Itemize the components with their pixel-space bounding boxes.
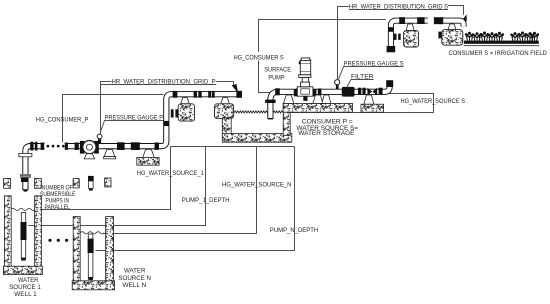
callout datum line under pipe end	[171, 146, 295, 148]
callout HR_WATER_DISTRIBUTION_GRID_P: left vertical down to gauge P	[101, 82, 112, 134]
svg-text:HG_CONSUMER_P: HG_CONSUMER_P	[36, 116, 89, 123]
pressure gauge P dial	[97, 134, 102, 139]
submersible pump 1 drop tube	[21, 213, 25, 259]
tank bottom slab	[222, 134, 291, 143]
svg-text:HG_WATER_SOURCE_N: HG_WATER_SOURCE_N	[222, 181, 292, 188]
svg-text:SOURCE 1: SOURCE 1	[9, 284, 41, 291]
submersible pump 1 intake tip	[21, 258, 25, 261]
coupling	[155, 143, 160, 150]
svg-text:PRESSURE GAUGE P: PRESSURE GAUGE P	[105, 114, 164, 121]
callout HR_WATER_DISTRIBUTION_GRID_P right connector to arrow	[216, 82, 233, 87]
coupling	[75, 143, 79, 150]
svg-text:PARALLEL: PARALLEL	[45, 204, 71, 211]
callout HR_WATER_DISTRIBUTION_GRID S underline	[349, 9, 448, 11]
grid S pipe bottom cap	[387, 46, 396, 52]
dip tube open end	[268, 118, 273, 119]
submersible pump 1 body	[21, 222, 27, 240]
dip tube flange	[265, 100, 275, 103]
filter body	[342, 87, 355, 97]
check valve bowtie	[367, 88, 372, 96]
submersible pump N body	[88, 239, 94, 253]
discharge elbow top band	[386, 80, 393, 87]
callout FILTER underline and leader	[347, 80, 374, 87]
svg-text:WATER: WATER	[18, 277, 39, 284]
callout HR_WATER_DISTRIBUTION_GRID_P underline	[101, 84, 217, 86]
well N riser stub cap	[88, 176, 94, 181]
pipe suction-discharge run with dip tube and up elbow	[270, 82, 389, 119]
coupling pair	[208, 91, 211, 98]
dots between wells	[48, 239, 68, 242]
svg-text:FILTER: FILTER	[351, 73, 374, 80]
svg-text:PUMP_1_DEPTH: PUMP_1_DEPTH	[182, 197, 230, 204]
tank left wall	[222, 118, 231, 136]
submersible pump N intake tip	[88, 277, 93, 280]
field plants	[465, 32, 474, 41]
grid P pump 2 body	[215, 104, 234, 119]
tank right wall	[283, 103, 290, 135]
coupling	[358, 88, 361, 95]
pipe stand	[104, 150, 115, 157]
submersible pump N drop tube	[88, 234, 93, 278]
tank water surface	[234, 111, 283, 113]
grid P pump 1 body	[178, 104, 194, 121]
grid P pipe end cap	[236, 91, 242, 98]
coupling	[362, 88, 365, 95]
well N riser stub pipe	[89, 181, 94, 189]
pipe main run with left riser and right riser up to grid P	[25, 94, 239, 189]
arrow to grid S pipe	[461, 14, 467, 21]
svg-text:PUMP_N_DEPTH: PUMP_N_DEPTH	[270, 227, 319, 234]
grid P pump 1 inlet flange bars	[171, 109, 174, 117]
right assembly left cap	[434, 17, 443, 24]
svg-text:HR_WATER_DISTRIBUTION_GRID_P: HR_WATER_DISTRIBUTION_GRID_P	[112, 78, 217, 85]
callout HG_CONSUMER S : from suction elbow left, up, right to grid S pipe	[259, 20, 386, 93]
pressure gauge S dial	[335, 80, 340, 85]
surface pump motor cylinder	[300, 60, 310, 75]
callout PRESSURE GAUGE S underline and leader	[339, 67, 404, 80]
surface pump foot	[303, 96, 307, 101]
surface pump right flange	[313, 89, 317, 96]
riser 1 tip	[22, 189, 29, 191]
valve P body	[83, 141, 96, 154]
svg-text:HG_WATER_SOURCE_1: HG_WATER_SOURCE_1	[137, 170, 204, 177]
coupling pair	[194, 91, 197, 98]
coupling	[173, 91, 178, 98]
stand on tank wall	[284, 95, 294, 103]
pipe stand	[313, 95, 323, 103]
well N left wall	[73, 217, 80, 282]
surface pump left flange	[294, 89, 298, 96]
coupling	[30, 142, 33, 151]
coupling	[35, 142, 38, 151]
right assembly pump body	[442, 30, 463, 46]
foundation slab under surface pump	[283, 103, 352, 112]
svg-text:HG_WATER_SOURCE S: HG_WATER_SOURCE S	[401, 98, 466, 105]
anchor block	[34, 178, 41, 188]
coupling	[399, 17, 405, 24]
anchor block	[4, 178, 11, 188]
callout PUMP_1_DEPTH	[28, 147, 205, 226]
riser 1 flange plate	[19, 153, 32, 156]
surface pump motor flange	[299, 75, 311, 78]
stand with base	[364, 95, 374, 104]
surface pump motor nub	[299, 61, 301, 64]
coupling	[417, 17, 424, 24]
anchor block	[73, 179, 79, 188]
pipe stand with anchor base	[143, 150, 154, 158]
arrow to grid P pipe	[232, 84, 239, 93]
callout HG_CONSUMER_P vertical from dotted pipe up and over to grid pipe elbow	[63, 95, 164, 145]
svg-text:WELL 1: WELL 1	[14, 291, 37, 298]
valve P stand	[84, 154, 94, 159]
well 1 bottom slab	[3, 266, 42, 274]
svg-text:WATER: WATER	[124, 268, 146, 275]
grid S vertical band	[388, 27, 394, 32]
vertical pipe band	[164, 121, 169, 126]
right assembly tee stub	[448, 24, 456, 30]
callout HG_WATER_SOURCE S box from discharge elbow to tank water level	[284, 94, 434, 113]
pressure gauge S stem	[336, 85, 339, 90]
svg-text:SOURCE N: SOURCE N	[118, 275, 151, 282]
grid S pump body	[404, 31, 419, 47]
right assembly inlet flange	[438, 32, 441, 39]
surface pump body	[297, 87, 313, 96]
svg-text:PRESSURE GAUGE S: PRESSURE GAUGE S	[344, 61, 405, 68]
svg-text:WATER STORAGE: WATER STORAGE	[298, 130, 355, 137]
callout PUMP_N_DEPTH	[96, 147, 295, 251]
coupling	[131, 142, 140, 150]
riser 1 joint lines	[20, 174, 30, 175]
valve P left flange	[80, 141, 85, 154]
riser 1 band	[21, 178, 28, 182]
coupling	[296, 88, 300, 95]
well 1 water surface	[11, 208, 34, 210]
grid S pipe with down elbow	[391, 21, 428, 48]
callout HR_WATER_DISTRIBUTION_GRID S right connector	[448, 6, 464, 15]
coupling	[379, 88, 383, 95]
surface pump motor joint	[301, 82, 310, 87]
svg-text:HR_WATER_DISTRIBUTION_GRID S: HR_WATER_DISTRIBUTION_GRID S	[349, 4, 449, 11]
grid P tee stub to pump 1	[181, 98, 189, 104]
surface pump motor cap	[301, 58, 310, 61]
svg-text:PUMP: PUMP	[268, 74, 285, 81]
callout HG_WATER_SOURCE_N	[104, 147, 257, 234]
well N bottom slab	[72, 281, 114, 290]
grid S right assembly pipe	[438, 21, 464, 27]
well 1 right wall	[35, 196, 42, 267]
field ground bar	[464, 41, 539, 44]
well N riser stub tip	[89, 189, 93, 191]
coupling	[318, 89, 322, 96]
grid S tee stub to pump	[406, 24, 414, 31]
anchor block	[105, 178, 111, 187]
coupling	[275, 88, 280, 95]
well N right wall	[106, 217, 114, 282]
svg-text:SURFACE: SURFACE	[264, 67, 291, 74]
coupling	[65, 143, 68, 150]
well N water surface	[80, 232, 104, 234]
svg-text:WELL N: WELL N	[122, 282, 146, 289]
pressure gauge P stem	[98, 139, 101, 144]
coupling	[41, 143, 45, 150]
svg-text:HG_CONSUMER S: HG_CONSUMER S	[234, 55, 285, 62]
foundation slab right	[361, 104, 384, 112]
pipe stand	[322, 95, 331, 103]
surface pump motor neck	[302, 77, 308, 82]
grid P tee stub to pump 2	[221, 98, 230, 104]
pipe break with continuation dots	[45, 143, 65, 150]
callout PRESSURE GAUGE P underline and leader	[100, 121, 164, 134]
coupling	[117, 142, 125, 150]
valve P right flange	[94, 141, 99, 154]
svg-text:CONSUMER S = IRRIGATION FIELD: CONSUMER S = IRRIGATION FIELD	[449, 50, 548, 57]
callout HG_WATER_SOURCE_1	[41, 147, 170, 210]
well 1 left wall	[4, 196, 11, 267]
callout HR_WATER_DISTRIBUTION_GRID S : left vertical down to gauge S	[338, 7, 349, 80]
grid S pump inlet flange bars	[394, 34, 397, 40]
